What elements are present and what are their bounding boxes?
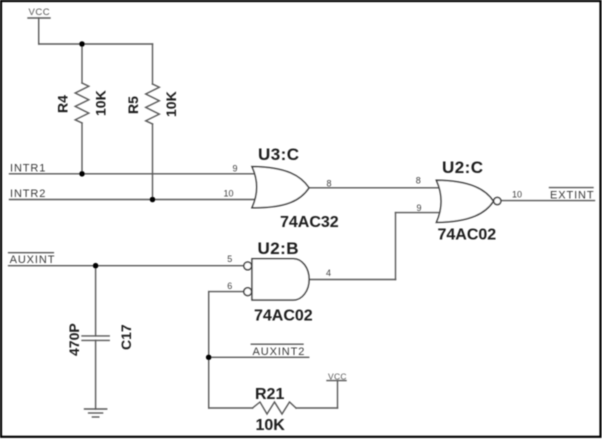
svg-text:AUXINT2: AUXINT2: [253, 346, 306, 358]
svg-text:4: 4: [326, 268, 331, 278]
svg-text:INTR1: INTR1: [10, 163, 46, 175]
svg-text:8: 8: [416, 175, 421, 185]
svg-text:74AC32: 74AC32: [280, 214, 339, 231]
svg-text:10: 10: [224, 188, 234, 198]
svg-text:U2:B: U2:B: [258, 239, 299, 258]
svg-text:U2:C: U2:C: [442, 158, 483, 177]
svg-text:R4: R4: [55, 95, 71, 113]
svg-text:INTR2: INTR2: [10, 188, 46, 200]
svg-text:10: 10: [512, 189, 522, 199]
svg-text:74AC02: 74AC02: [438, 227, 497, 244]
svg-text:VCC: VCC: [29, 7, 51, 18]
svg-text:R5: R5: [125, 96, 141, 114]
svg-text:VCC: VCC: [328, 372, 347, 382]
svg-text:10K: 10K: [163, 91, 179, 117]
svg-text:EXTINT: EXTINT: [550, 190, 595, 202]
svg-text:470P: 470P: [66, 323, 82, 356]
svg-text:10K: 10K: [256, 417, 286, 434]
svg-text:6: 6: [227, 281, 232, 291]
svg-text:R21: R21: [255, 386, 284, 403]
svg-text:9: 9: [233, 164, 238, 174]
svg-text:10K: 10K: [93, 90, 109, 116]
svg-text:74AC02: 74AC02: [254, 308, 313, 325]
svg-text:U3:C: U3:C: [258, 145, 299, 164]
svg-text:8: 8: [327, 178, 332, 188]
svg-text:C17: C17: [118, 324, 134, 350]
svg-text:9: 9: [417, 203, 422, 213]
svg-text:AUXINT: AUXINT: [10, 254, 56, 266]
svg-text:5: 5: [227, 254, 232, 264]
